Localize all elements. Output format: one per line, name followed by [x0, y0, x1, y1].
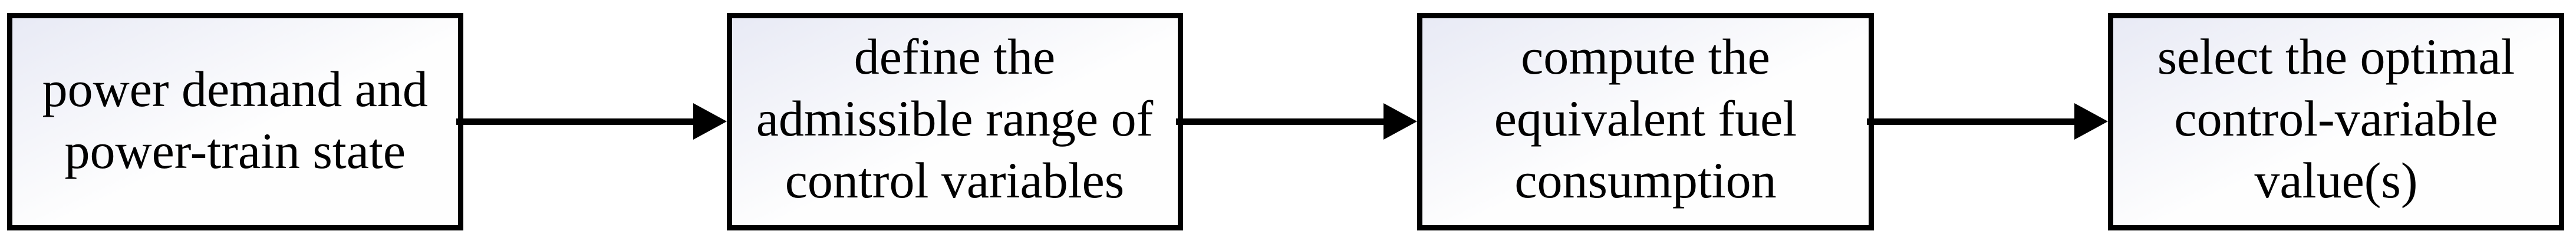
process box 3: compute the equivalent fuel consumption [1417, 13, 1874, 231]
arrow 1 shaft [456, 118, 696, 125]
arrow 2 shaft [1176, 118, 1386, 125]
arrow 2 head [1383, 103, 1417, 140]
process box 1: power demand and power-train state [7, 13, 463, 231]
arrow 3 shaft [1867, 118, 2077, 125]
process box 4: select the optimal control-variable value(s) [2108, 13, 2564, 231]
process box 2: define the admissible range of control variables [727, 13, 1183, 231]
arrow 3 head [2074, 103, 2108, 140]
arrow 1 head [693, 103, 727, 140]
